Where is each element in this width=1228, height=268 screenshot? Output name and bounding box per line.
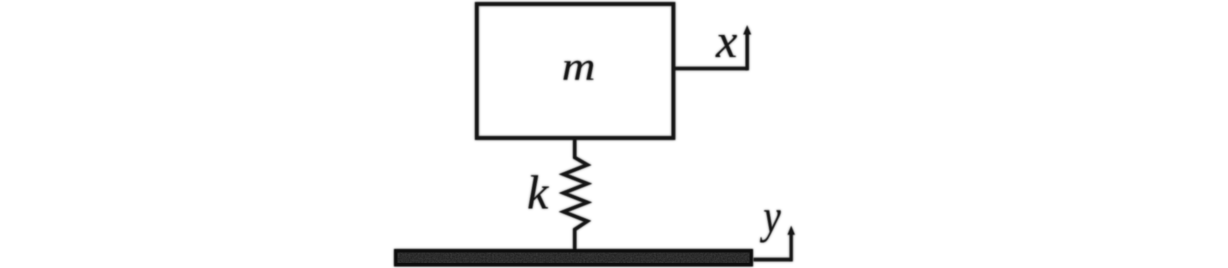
- spring k: [564, 138, 588, 249]
- svg-text:x: x: [715, 15, 737, 68]
- wire x-axis vertical: [746, 33, 749, 71]
- bar grain texture: [398, 253, 750, 263]
- mass block m: [477, 4, 674, 138]
- svg-text:y: y: [760, 191, 782, 243]
- soft scan halo (duplicate of artwork): [396, 4, 795, 265]
- svg-text:m: m: [562, 45, 596, 89]
- arrowhead x: [743, 25, 751, 34]
- wire y-axis vertical: [790, 233, 793, 262]
- base bar: [396, 251, 752, 265]
- wire y-axis horizontal: [754, 258, 792, 262]
- arrowhead y: [788, 226, 795, 235]
- wire x-axis horizontal: [675, 67, 747, 71]
- svg-text:k: k: [527, 167, 550, 220]
